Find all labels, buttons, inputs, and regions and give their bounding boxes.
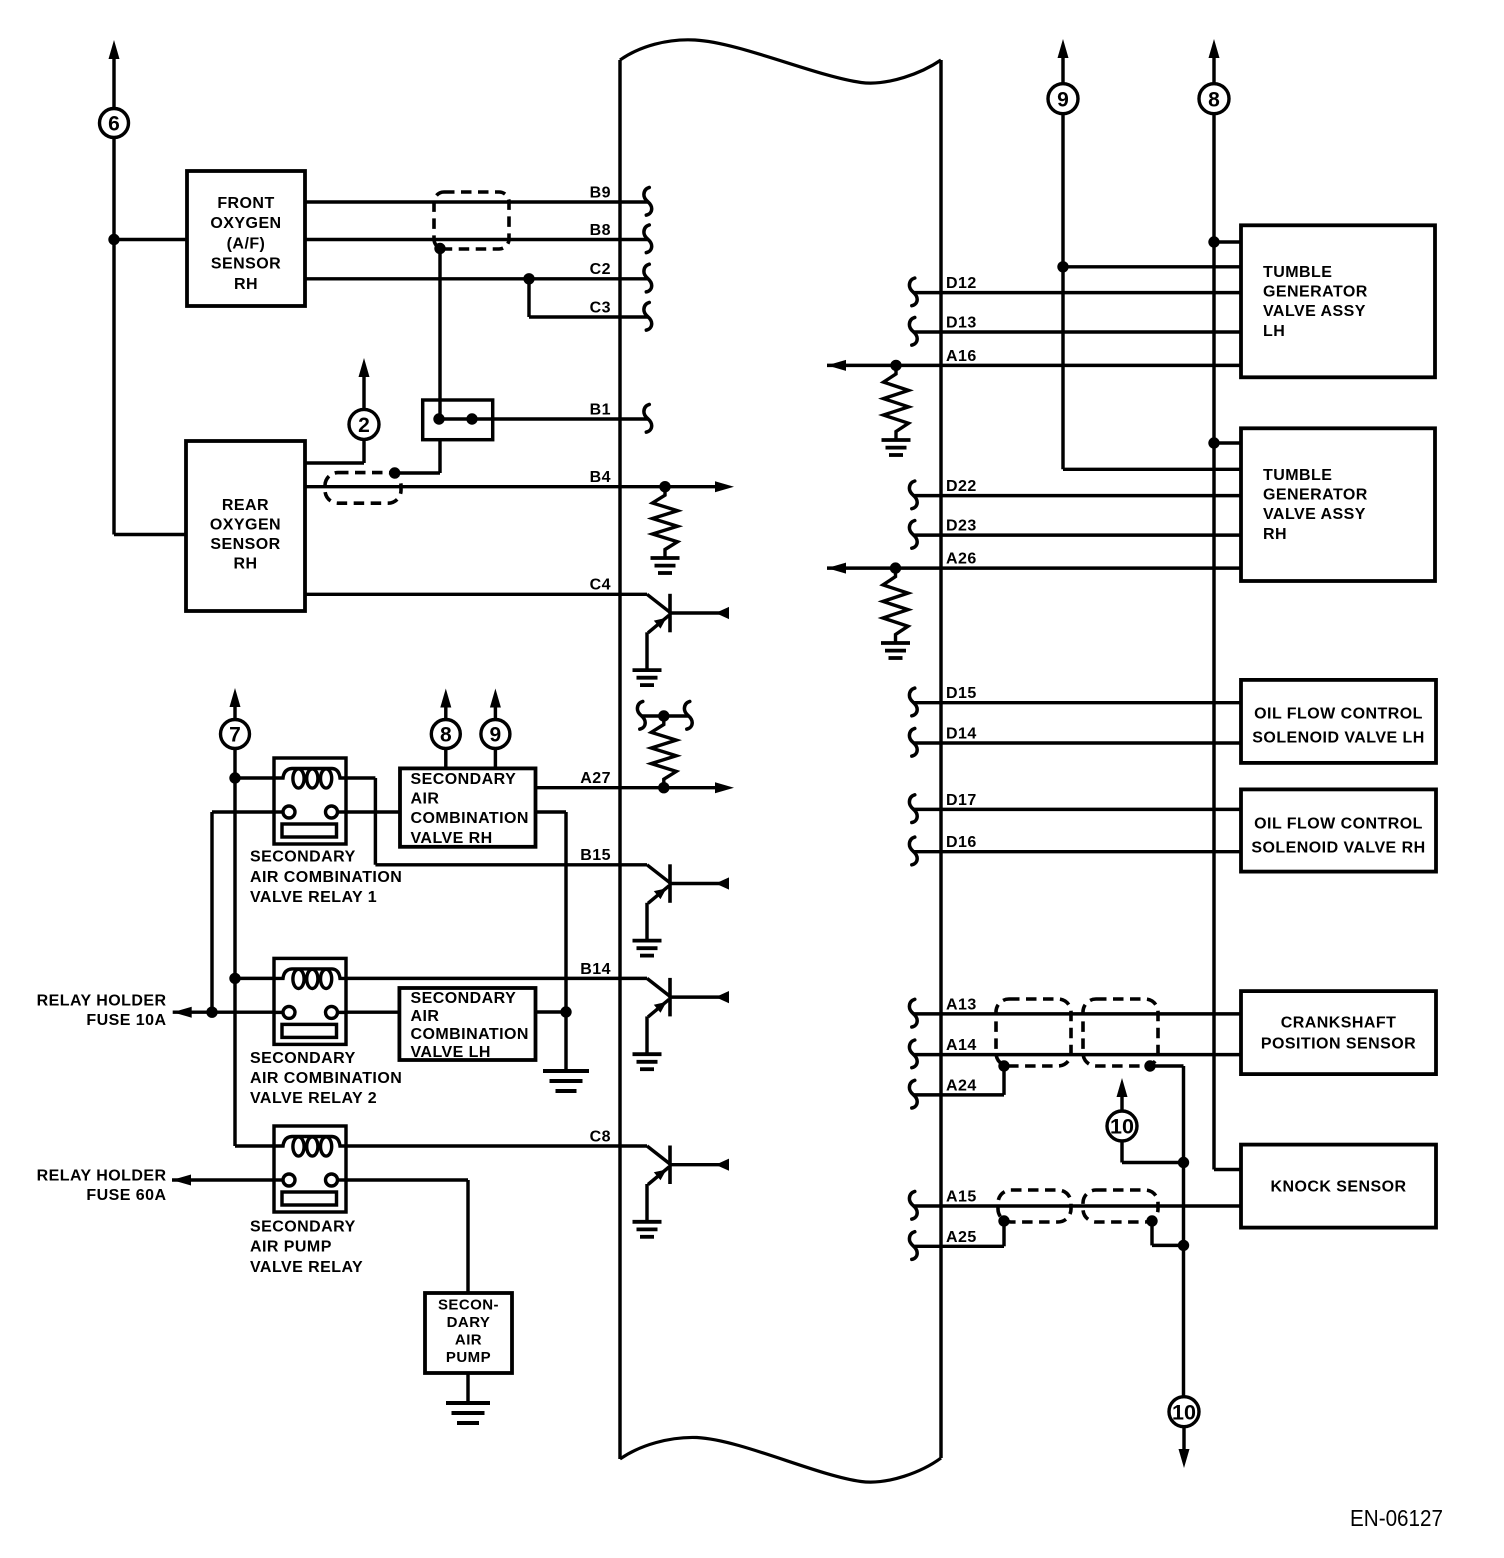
svg-text:A27: A27 [580,770,611,787]
svg-text:GENERATOR: GENERATOR [1263,284,1368,301]
svg-text:D16: D16 [946,834,977,851]
svg-text:RH: RH [233,556,257,573]
svg-text:TUMBLE: TUMBLE [1263,467,1332,484]
svg-text:SENSOR: SENSOR [211,256,281,273]
svg-text:C4: C4 [590,577,611,594]
svg-text:KNOCK SENSOR: KNOCK SENSOR [1270,1179,1406,1196]
svg-text:AIR PUMP: AIR PUMP [250,1239,332,1256]
svg-text:B14: B14 [580,961,611,978]
svg-text:D22: D22 [946,478,977,495]
svg-text:D12: D12 [946,275,977,292]
svg-text:VALVE ASSY: VALVE ASSY [1263,506,1366,523]
svg-text:A16: A16 [946,348,977,365]
svg-text:RH: RH [1263,526,1287,543]
svg-text:C3: C3 [590,299,611,316]
svg-text:REAR: REAR [222,497,269,514]
svg-text:FUSE 60A: FUSE 60A [86,1187,166,1204]
svg-text:C2: C2 [590,261,611,278]
svg-text:SECONDARY: SECONDARY [250,1050,356,1067]
svg-text:2: 2 [358,414,370,437]
svg-text:6: 6 [108,113,120,136]
svg-text:POSITION SENSOR: POSITION SENSOR [1261,1036,1416,1053]
svg-text:D15: D15 [946,685,977,702]
svg-text:SECONDARY: SECONDARY [411,771,517,788]
svg-text:D17: D17 [946,792,977,809]
svg-text:VALVE RELAY 2: VALVE RELAY 2 [250,1090,377,1107]
svg-text:FRONT: FRONT [217,195,274,212]
svg-text:DARY: DARY [447,1314,491,1331]
svg-text:8: 8 [440,724,452,747]
svg-text:9: 9 [1057,88,1069,111]
svg-text:A14: A14 [946,1037,977,1054]
svg-text:B15: B15 [580,847,611,864]
svg-text:AIR: AIR [411,791,440,808]
svg-text:OIL FLOW CONTROL: OIL FLOW CONTROL [1254,706,1423,723]
svg-text:LH: LH [1263,323,1285,340]
svg-text:A15: A15 [946,1189,977,1206]
svg-text:AIR COMBINATION: AIR COMBINATION [250,1070,402,1087]
svg-text:10: 10 [1110,1115,1134,1139]
svg-text:B4: B4 [590,469,611,486]
svg-text:C8: C8 [590,1128,611,1145]
svg-text:(A/F): (A/F) [227,235,266,252]
svg-text:VALVE RELAY: VALVE RELAY [250,1259,363,1276]
svg-text:COMBINATION: COMBINATION [411,1026,529,1043]
svg-text:VALVE ASSY: VALVE ASSY [1263,303,1366,320]
svg-text:RH: RH [234,276,258,293]
svg-text:A13: A13 [946,996,977,1013]
svg-text:OXYGEN: OXYGEN [210,517,281,534]
svg-text:SECONDARY: SECONDARY [250,849,356,866]
svg-text:AIR: AIR [455,1332,482,1349]
svg-text:VALVE LH: VALVE LH [411,1044,491,1061]
svg-text:RELAY HOLDER: RELAY HOLDER [37,1168,167,1185]
svg-text:CRANKSHAFT: CRANKSHAFT [1281,1015,1397,1032]
svg-text:OXYGEN: OXYGEN [210,215,281,232]
svg-text:SECON-: SECON- [438,1297,499,1314]
svg-text:SOLENOID VALVE RH: SOLENOID VALVE RH [1251,839,1425,856]
svg-text:B8: B8 [590,222,611,239]
svg-text:D14: D14 [946,726,977,743]
svg-text:SECONDARY: SECONDARY [250,1219,356,1236]
svg-text:GENERATOR: GENERATOR [1263,487,1368,504]
svg-text:SECONDARY: SECONDARY [411,990,517,1007]
svg-text:10: 10 [1172,1400,1196,1424]
svg-text:TUMBLE: TUMBLE [1263,264,1332,281]
svg-text:SOLENOID VALVE LH: SOLENOID VALVE LH [1252,729,1424,746]
svg-text:B1: B1 [590,401,611,418]
svg-text:VALVE RH: VALVE RH [411,830,493,847]
svg-text:FUSE 10A: FUSE 10A [86,1012,166,1029]
svg-text:RELAY HOLDER: RELAY HOLDER [37,993,167,1010]
svg-text:8: 8 [1208,88,1220,111]
svg-text:AIR COMBINATION: AIR COMBINATION [250,869,402,886]
svg-text:SENSOR: SENSOR [210,536,280,553]
svg-text:9: 9 [490,724,502,747]
svg-text:VALVE RELAY 1: VALVE RELAY 1 [250,889,377,906]
svg-text:7: 7 [229,724,241,747]
svg-text:D23: D23 [946,518,977,535]
svg-text:B9: B9 [590,184,611,201]
svg-text:A26: A26 [946,551,977,568]
svg-text:COMBINATION: COMBINATION [411,810,529,827]
svg-text:A25: A25 [946,1229,977,1246]
svg-text:AIR: AIR [411,1008,440,1025]
svg-text:EN-06127: EN-06127 [1350,1505,1443,1531]
svg-text:PUMP: PUMP [446,1349,491,1366]
svg-text:OIL FLOW CONTROL: OIL FLOW CONTROL [1254,816,1423,833]
svg-text:D13: D13 [946,315,977,332]
svg-text:A24: A24 [946,1077,977,1094]
